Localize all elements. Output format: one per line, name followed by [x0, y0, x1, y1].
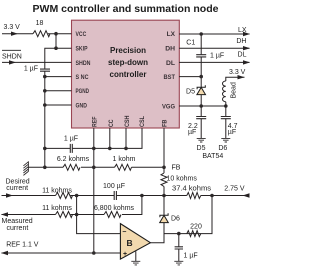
svg-text:Measured: Measured: [2, 218, 33, 225]
node REF x 1uF line: [92, 147, 96, 151]
ground (output cap): [174, 261, 183, 265]
wire REF stub: [93, 128, 95, 253]
wire S NC stub: [45, 76, 72, 78]
svg-text:C1: C1: [186, 40, 195, 47]
wire BST: [179, 76, 201, 78]
node 100uF right junction: [140, 194, 144, 198]
node BST junction: [199, 75, 203, 79]
wire DL: [179, 61, 250, 63]
svg-text:µF: µF: [228, 129, 236, 136]
wire DH: [179, 47, 250, 49]
wire desired input: [2, 195, 56, 197]
node sum top: [75, 194, 79, 198]
svg-text:DH: DH: [236, 38, 246, 45]
wire D5 to VGG: [200, 95, 202, 106]
svg-text:6,800 kohms: 6,800 kohms: [94, 205, 135, 212]
svg-text:CC: CC: [108, 119, 115, 127]
svg-text:2.75 V: 2.75 V: [224, 186, 245, 193]
arrow SHDN: [9, 60, 16, 64]
svg-text:220: 220: [190, 223, 202, 230]
wire REF rail: [2, 252, 121, 254]
node VGG/D5 junction: [199, 104, 203, 108]
wire cap to gnd rail: [44, 71, 46, 167]
capacitor 2.2uF: [200, 106, 202, 117]
svg-text:D5: D5: [197, 145, 206, 152]
node FB/D6 vertical junction: [162, 194, 166, 198]
svg-text:10 kohms: 10 kohms: [167, 176, 198, 183]
svg-text:SHDN: SHDN: [76, 60, 91, 67]
svg-text:D6: D6: [171, 216, 180, 223]
node output/1uF junction: [177, 232, 181, 236]
svg-text:−: −: [122, 229, 126, 236]
svg-text:Precision: Precision: [110, 46, 146, 55]
svg-text:REF 1.1 V: REF 1.1 V: [6, 241, 39, 248]
svg-text:1 µF: 1 µF: [64, 136, 78, 143]
svg-text:6.2 kohms: 6.2 kohms: [57, 156, 90, 163]
ground (op-amp): [131, 261, 140, 265]
svg-text:BAT54: BAT54: [202, 153, 223, 160]
svg-text:DH: DH: [165, 46, 175, 53]
wire bead to VGG: [225, 102, 227, 106]
wire to sum node: [71, 195, 115, 197]
node REF line junction: [43, 147, 47, 151]
svg-text:VCC: VCC: [76, 31, 87, 38]
svg-text:PGND: PGND: [76, 88, 90, 95]
svg-text:current: current: [7, 225, 29, 232]
wire 10k to wire1: [163, 187, 165, 196]
inductor bead: [223, 81, 226, 102]
svg-text:18: 18: [36, 20, 44, 27]
svg-text:DL: DL: [238, 52, 247, 59]
wire op-amp output: [150, 196, 212, 243]
arrow DH: [243, 46, 250, 50]
wire D6 bottom: [163, 223, 165, 234]
svg-text:1 µF: 1 µF: [210, 53, 224, 60]
svg-text:1 kohm: 1 kohm: [113, 156, 136, 163]
svg-text:CSH: CSH: [124, 115, 131, 127]
node 2.75V junction: [210, 194, 214, 198]
svg-text:D6: D6: [218, 145, 227, 152]
svg-text:LX: LX: [238, 27, 247, 34]
wire 37.4k to edge: [201, 195, 249, 197]
node CC junction: [108, 147, 112, 151]
ground (4.7uF): [221, 138, 230, 142]
node sum bottom: [75, 213, 79, 217]
wire resistor to VCC: [48, 33, 72, 35]
node gnd rail junction: [43, 166, 47, 170]
node LX junction: [199, 32, 203, 36]
svg-text:µF: µF: [188, 129, 196, 136]
wire 6.2k/1k line: [45, 166, 63, 168]
arrow LX: [243, 32, 250, 36]
wire FB stub from IC: [163, 128, 165, 173]
svg-text:BST: BST: [164, 74, 176, 81]
capacitor 4.7uF: [225, 106, 227, 117]
arrow desired: [6, 193, 13, 197]
wire SHDN: [2, 61, 72, 63]
ground (2.2uF): [197, 138, 206, 142]
svg-text:11 kohms: 11 kohms: [42, 205, 72, 212]
node SKIP junction: [54, 46, 58, 50]
svg-text:3.3 V: 3.3 V: [4, 24, 21, 31]
wire REF bypass line: [45, 128, 142, 148]
wire 1uF drop: [178, 234, 180, 247]
op-amp B: [120, 224, 150, 260]
arrow 2.75V: [243, 193, 250, 197]
node S NC junction: [43, 75, 47, 79]
svg-text:Bead: Bead: [231, 82, 238, 98]
wire cap to FB vertical: [116, 195, 186, 197]
node FB: [162, 166, 166, 170]
diode D6: [160, 213, 169, 222]
svg-text:VGG: VGG: [162, 103, 175, 110]
diode D5: [197, 85, 206, 94]
wire GND stub: [45, 104, 72, 106]
svg-text:S NC: S NC: [76, 74, 89, 81]
svg-text:1 µF: 1 µF: [184, 252, 198, 259]
wire C1 to BST: [200, 57, 202, 87]
node GND junction: [43, 103, 47, 107]
svg-text:PWM controller and summation n: PWM controller and summation node: [33, 4, 219, 15]
resistor 10 kohms (vertical): [161, 173, 167, 186]
svg-text:1 µF: 1 µF: [24, 66, 38, 73]
arrow 3.3V bead: [238, 75, 245, 79]
svg-text:step-down: step-down: [108, 58, 148, 67]
svg-text:controller: controller: [110, 70, 147, 79]
wire VGG: [179, 105, 226, 107]
arrow REF rail: [1, 251, 8, 255]
svg-text:FB: FB: [162, 119, 169, 127]
svg-text:current: current: [6, 185, 28, 192]
svg-text:+: +: [123, 251, 127, 258]
wire CC stub: [109, 128, 111, 148]
wire PGND stub: [45, 90, 72, 92]
wire to 1k: [81, 166, 115, 168]
arrow measured: [1, 212, 8, 216]
svg-text:B: B: [127, 238, 133, 248]
svg-text:3.3 V: 3.3 V: [229, 69, 246, 76]
svg-text:37.4 kohms: 37.4 kohms: [172, 185, 212, 192]
IC U1 precision step-down controller: [72, 20, 180, 128]
wire 3.3V to resistor: [2, 33, 33, 35]
svg-text:GND: GND: [76, 102, 87, 109]
wire gnd to rail: [28, 166, 44, 168]
arrow 3.3V: [11, 32, 18, 36]
wire 1k to FB node: [132, 166, 165, 168]
wire D6 top: [163, 196, 165, 216]
wire measured input: [2, 214, 56, 216]
svg-text:D5: D5: [186, 88, 195, 95]
arrow DL: [243, 60, 250, 64]
svg-text:REF: REF: [91, 117, 98, 128]
wire op-amp gnd stub: [135, 251, 137, 261]
wire to sum node bottom: [71, 214, 105, 216]
svg-text:SHDN: SHDN: [2, 53, 22, 60]
wire SKIP: [45, 48, 72, 69]
wire CSH stub: [125, 128, 127, 148]
node CSH junction: [124, 147, 128, 151]
svg-text:SKIP: SKIP: [76, 46, 88, 53]
wire VCC to SKIP vertical: [55, 34, 57, 49]
svg-text:FB: FB: [172, 164, 181, 171]
svg-text:100 µF: 100 µF: [103, 183, 125, 190]
wire summing vertical: [77, 196, 121, 234]
node VGG/bead junction: [224, 104, 228, 108]
ground (chassis, left): [23, 161, 28, 175]
node VCC junction: [54, 32, 58, 36]
wire LX: [179, 33, 250, 35]
node REF rail junction: [92, 251, 96, 255]
node PGND junction: [43, 89, 47, 93]
node REF crossing: [92, 166, 96, 170]
wire 6800k to corner up: [122, 196, 142, 215]
svg-text:LX: LX: [167, 31, 176, 38]
svg-text:CSL: CSL: [139, 116, 146, 127]
wire 3.3V bead: [226, 77, 245, 81]
svg-text:DL: DL: [166, 60, 175, 67]
